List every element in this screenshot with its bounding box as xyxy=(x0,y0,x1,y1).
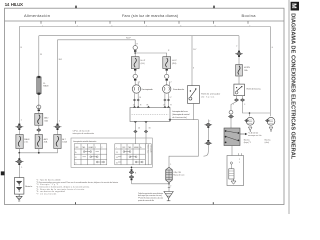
fuse H-LP LH xyxy=(131,57,146,69)
fuse HORN xyxy=(236,65,251,77)
svg-text:Faro (sin luz de marcha diurna: Faro (sin luz de marcha diurna) xyxy=(122,14,179,18)
battery branch wire xyxy=(18,153,20,178)
svg-text:16: 16 xyxy=(149,127,151,129)
connector T1 xyxy=(15,158,24,169)
svg-text:Bocina: Bocina xyxy=(242,13,257,18)
svg-text:13: 13 xyxy=(116,152,118,154)
svg-text:Interruptor de control de ilum: Interruptor de control de iluminación xyxy=(73,140,96,143)
svg-text:2: 2 xyxy=(170,185,171,187)
page frame xyxy=(5,8,285,204)
connector B2 xyxy=(37,129,41,132)
fusible link block FL2 on wire B xyxy=(37,76,49,95)
wire rail R3 with H-LP xyxy=(58,39,136,41)
svg-text:OFF: OFF xyxy=(75,147,78,149)
connector ring B1 xyxy=(37,105,41,111)
fusible link FL1 xyxy=(16,135,30,149)
ground wire from strip xyxy=(168,183,170,192)
horn feed wire xyxy=(238,36,240,51)
connector pins P5 xyxy=(134,127,151,133)
bottom note block xyxy=(138,192,163,202)
svg-text:interruptor de combinación: interruptor de combinación xyxy=(73,132,95,135)
svg-text:OFF: OFF xyxy=(122,147,125,149)
fusible link FL4 xyxy=(54,135,68,149)
connector ring H2 xyxy=(133,69,137,81)
junction node J2 xyxy=(38,152,40,154)
left border index mark xyxy=(1,171,5,175)
truth table T1 xyxy=(74,144,107,165)
horn relay output wires xyxy=(236,96,238,99)
svg-text:HORN: HORN xyxy=(244,67,250,69)
svg-text:(baja) *1: (baja) *1 xyxy=(244,142,251,144)
svg-text:(alta): (alta) xyxy=(265,141,270,144)
sidebar section index box M xyxy=(291,2,299,11)
tables enclosure box xyxy=(71,138,152,167)
svg-text:2: 2 xyxy=(139,81,140,83)
multipin connector strip CS1 xyxy=(166,167,186,182)
section divider marks on top border xyxy=(75,6,76,9)
svg-text:17: 17 xyxy=(170,97,172,99)
wire to horn fuse xyxy=(238,57,240,65)
connector D6 xyxy=(228,115,233,119)
header band bottom line xyxy=(5,20,285,22)
fusible link FL3 xyxy=(35,135,49,149)
svg-text:3: 3 xyxy=(244,104,245,106)
svg-text:H-LP: H-LP xyxy=(172,60,177,62)
wire into junction block xyxy=(230,118,232,128)
svg-text:(RH): (RH) xyxy=(172,63,177,65)
svg-text:de iluminación): de iluminación) xyxy=(172,117,187,119)
svg-text:Interr. foco: Interr. foco xyxy=(147,145,150,153)
junction block JB xyxy=(224,128,240,146)
headlamp LH feed wire xyxy=(134,40,136,46)
wire to LH fuse with branch node xyxy=(134,52,136,57)
junction node J1 xyxy=(18,152,20,154)
svg-text:14 HILUX: 14 HILUX xyxy=(5,2,24,7)
svg-text:punto de masa de ello: punto de masa de ello xyxy=(138,199,154,202)
wire rail R2 xyxy=(39,35,239,37)
horn low xyxy=(246,117,254,132)
horn high xyxy=(267,117,275,132)
svg-text:C/A, C/B: C/A, C/B xyxy=(173,171,181,174)
battery xyxy=(14,178,33,195)
horn switch connector D1 xyxy=(205,124,213,126)
table T1 cell marks xyxy=(75,146,102,165)
svg-text:Relé de bocina: Relé de bocina xyxy=(247,88,262,90)
svg-text:TAIL: TAIL xyxy=(128,146,131,149)
wire drop horn low xyxy=(249,113,251,116)
connector pair on table output xyxy=(131,169,133,170)
svg-text:1: 1 xyxy=(233,104,234,106)
connector ring H3 xyxy=(165,69,169,81)
control unit box xyxy=(227,153,244,185)
wire middle feed B xyxy=(38,36,40,153)
switch output pins xyxy=(134,122,147,124)
wire drop horn high xyxy=(269,113,271,116)
truth table T2 xyxy=(115,144,146,165)
grid numbers xyxy=(42,25,251,27)
connector pins RH xyxy=(164,99,170,101)
svg-text:1: 1 xyxy=(239,162,240,164)
wire to ground run xyxy=(132,183,170,185)
svg-text:100A: 100A xyxy=(62,141,67,144)
svg-text:17: 17 xyxy=(163,104,165,106)
horn low connector xyxy=(245,119,249,122)
arrow from junction block xyxy=(240,132,261,138)
bottom border tick 1 xyxy=(75,202,76,204)
svg-text:14: 14 xyxy=(138,127,140,129)
bottom border tick 2 xyxy=(213,202,214,204)
svg-text:Relé de atenuador: Relé de atenuador xyxy=(201,93,220,96)
svg-text:atenuador: atenuador xyxy=(150,145,153,153)
svg-text:HEAD: HEAD xyxy=(89,146,94,149)
svg-text:2: 2 xyxy=(101,147,102,149)
bus wire joining fusible links xyxy=(19,149,57,153)
svg-text:2: 2 xyxy=(209,120,210,122)
svg-text:W: W xyxy=(40,54,42,56)
dimmer relay feed wire xyxy=(191,36,193,86)
svg-text:2: 2 xyxy=(171,81,172,83)
switch to table wires xyxy=(135,123,146,144)
connector 1C on wire C xyxy=(54,121,62,131)
svg-text:de faros: de faros xyxy=(201,96,214,99)
svg-text:Masa de carr.: Masa de carr. xyxy=(173,174,185,177)
grid tick marks below band xyxy=(41,21,248,24)
svg-text:HL: HL xyxy=(147,104,149,106)
horn switch drop wire xyxy=(204,145,209,156)
headlamp LH return wires xyxy=(135,93,139,107)
wire left feed A xyxy=(18,27,20,160)
svg-text:(Interruptor de control: (Interruptor de control xyxy=(172,113,190,116)
svg-text:arranque en frío: arranque en frío xyxy=(248,134,261,137)
svg-text:MAIN: MAIN xyxy=(24,138,30,141)
dimmer relay U1 xyxy=(188,86,221,104)
table T2 side strip xyxy=(145,144,151,165)
wire rail R1 xyxy=(19,27,270,114)
svg-text:2: 2 xyxy=(236,46,237,48)
svg-text:Interruptor de luces: Interruptor de luces xyxy=(172,110,188,113)
svg-text:14: 14 xyxy=(116,157,118,159)
wire right feed C xyxy=(57,40,59,135)
svg-text:16: 16 xyxy=(133,104,135,106)
horn relay U2 xyxy=(234,84,262,96)
table output wire xyxy=(131,167,133,184)
fuse AM2 on wire B xyxy=(35,113,49,125)
ground return wire from switch xyxy=(169,120,198,168)
connector 1A on wire A xyxy=(15,120,23,131)
connector ring H1 xyxy=(133,46,137,52)
svg-text:16: 16 xyxy=(139,97,141,99)
ground G1 xyxy=(164,192,173,201)
svg-text:16: 16 xyxy=(116,162,118,164)
horn switch connector D2 xyxy=(207,140,209,141)
svg-text:M: M xyxy=(290,3,297,8)
dimmer relay output wire xyxy=(193,103,195,119)
horn switch feed wire xyxy=(231,102,237,111)
switch right pin xyxy=(169,119,171,121)
horn switch branch wire xyxy=(207,120,209,123)
fuse H-LP RH xyxy=(163,57,178,69)
headlamp LH bulb xyxy=(132,81,153,94)
horn switch wire xyxy=(207,128,209,141)
svg-text:MAIN: MAIN xyxy=(43,85,49,88)
svg-text:1: 1 xyxy=(170,164,171,166)
svg-text:1: 1 xyxy=(95,147,96,149)
headlamp RH bulb xyxy=(163,81,185,94)
sidebar rule xyxy=(288,0,290,214)
svg-text:Alimentación: Alimentación xyxy=(24,13,50,18)
horn connector D3 xyxy=(235,53,243,55)
svg-text:Faro izquierdo: Faro izquierdo xyxy=(142,88,154,91)
svg-text:(LH): (LH) xyxy=(141,63,145,65)
light control switch S1 xyxy=(130,104,190,121)
wire junction block to control unit xyxy=(231,146,233,156)
connector pins under relay xyxy=(234,99,238,102)
svg-text:2: 2 xyxy=(239,159,240,161)
svg-text:H-LP: H-LP xyxy=(141,60,146,62)
svg-text:TAIL: TAIL xyxy=(82,146,85,149)
connector ring R5 xyxy=(229,111,233,115)
svg-text:H-LP: H-LP xyxy=(126,38,131,40)
wire relay to horns xyxy=(243,102,271,114)
svg-text:Batería: Batería xyxy=(25,185,33,188)
horn high connector xyxy=(265,119,269,122)
svg-text:HEAD: HEAD xyxy=(134,146,139,149)
svg-text:DIAGRAMA DE CONEXIONES ELECTRI: DIAGRAMA DE CONEXIONES ELECTRICAS GENERA… xyxy=(289,13,295,160)
headlamp RH return wires xyxy=(165,93,169,107)
svg-text:Faro derecho: Faro derecho xyxy=(173,88,185,91)
connector pins LH xyxy=(133,99,139,101)
notes list xyxy=(36,180,118,196)
svg-text:*7: sin esa función: *7: sin esa función xyxy=(36,193,56,195)
ground under battery xyxy=(16,194,22,201)
table T2 cell marks xyxy=(116,146,142,165)
wire fuse to horn relay xyxy=(238,76,240,84)
branch wire to RH fuse xyxy=(135,53,167,57)
